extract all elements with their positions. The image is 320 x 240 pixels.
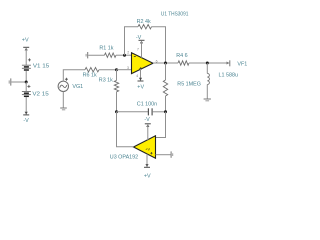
node +V (U1 bottom supply) xyxy=(137,69,144,91)
wire R4 to node D xyxy=(189,62,229,64)
wire node F down to U3 inverting input xyxy=(156,112,166,138)
svg-text:R1 1k: R1 1k xyxy=(99,46,113,52)
battery V1 xyxy=(22,58,49,70)
resistor R4 6 xyxy=(176,53,189,65)
generator VG1 xyxy=(58,78,83,92)
wire U1 pin7 supply stem xyxy=(141,41,143,58)
resistor R6 1k xyxy=(83,68,99,79)
node D (VF1/L1 node) xyxy=(206,62,209,65)
capacitor C1 100n xyxy=(137,102,157,116)
svg-text:R2 4k: R2 4k xyxy=(137,19,151,25)
voltage pin VF1 xyxy=(227,60,248,67)
resistor R2 4k xyxy=(137,19,152,29)
ground (below L1) xyxy=(204,99,211,101)
svg-text:R5 1MEG: R5 1MEG xyxy=(177,81,201,87)
wire V1 to junction xyxy=(25,71,27,82)
node C (output/feedback node) xyxy=(164,62,167,65)
op-amp U3 OPA192 xyxy=(110,136,156,161)
junction battery node xyxy=(25,81,28,84)
wire R5 to node F xyxy=(165,96,167,138)
wire node E to C1 xyxy=(117,111,149,113)
wire R3 to node E xyxy=(116,92,118,147)
wire node B to U1 pin 3 xyxy=(117,69,132,71)
svg-text:+V: +V xyxy=(144,173,151,179)
wire VG1 bottom to ground xyxy=(62,92,64,108)
wire node C down to R5 xyxy=(165,63,167,80)
resistor R3 1k xyxy=(99,78,119,92)
node F (C1 right node) xyxy=(164,110,167,113)
svg-text:R3 1k: R3 1k xyxy=(99,78,113,84)
node +V (left supply label) xyxy=(22,38,29,51)
ground (right of U3 input) xyxy=(171,151,173,157)
wire U3 top supply stem xyxy=(147,125,149,141)
svg-text:R4 6: R4 6 xyxy=(176,53,187,59)
node -V (left supply label) xyxy=(23,112,29,124)
svg-text:C1 100n: C1 100n xyxy=(137,102,157,108)
svg-text:VF1: VF1 xyxy=(237,62,247,68)
wire U1 output to node C xyxy=(153,62,178,64)
svg-text:+V: +V xyxy=(137,85,144,91)
svg-text:-V: -V xyxy=(23,118,29,124)
resistor R5 1MEG xyxy=(163,80,201,96)
wire +V to V1 xyxy=(25,48,27,65)
svg-text:R6 1k: R6 1k xyxy=(83,72,97,78)
wire C1 to node F xyxy=(152,111,165,113)
node A (inverting input node U1) xyxy=(123,54,126,57)
svg-text:-V: -V xyxy=(144,117,150,123)
op-amp U1 THS3091 xyxy=(132,11,189,73)
node -V (U3 top supply) xyxy=(144,117,150,127)
svg-text:V2 15: V2 15 xyxy=(32,92,48,98)
wire U3 noninverting input to ground xyxy=(156,154,171,156)
svg-text:V1 15: V1 15 xyxy=(33,64,49,70)
resistor R1 1k xyxy=(99,46,116,58)
wire node A up to R2 row xyxy=(125,27,139,56)
wire R6 to node B xyxy=(99,69,117,71)
ground (below VG1) xyxy=(60,108,67,110)
ground (left of R1) xyxy=(86,52,88,58)
ground (left of batteries) xyxy=(9,78,11,85)
wire node B down to R3 xyxy=(116,70,118,81)
wire VG1 top to R6 rail xyxy=(63,70,85,81)
inductor L1 588u xyxy=(207,63,238,99)
node E (C1 left node) xyxy=(115,110,118,113)
node B (noninverting input node U1) xyxy=(115,68,118,71)
battery V2 xyxy=(22,85,49,98)
wire junction to V2 xyxy=(25,82,27,91)
wire R2 to output node xyxy=(152,27,166,63)
wire U3 output to node E xyxy=(117,112,134,147)
node +V (U3 bottom supply) xyxy=(144,154,151,180)
svg-text:+V: +V xyxy=(22,38,29,44)
wire R1 to node A xyxy=(116,54,132,56)
svg-text:VG1: VG1 xyxy=(72,84,83,90)
wire ground to junction xyxy=(11,81,26,83)
svg-text:U1 THS3091: U1 THS3091 xyxy=(161,11,189,17)
svg-text:4: 4 xyxy=(136,74,138,78)
wire V2 to -V xyxy=(25,97,27,115)
node -V (U1 top supply) xyxy=(136,35,145,43)
svg-text:3: 3 xyxy=(127,66,129,70)
svg-text:U3 OPA192: U3 OPA192 xyxy=(110,154,138,160)
svg-text:L1 588u: L1 588u xyxy=(219,72,239,78)
svg-text:+V: +V xyxy=(145,148,150,152)
svg-text:2: 2 xyxy=(127,51,129,55)
wire ground to R1 xyxy=(88,54,104,56)
svg-text:7: 7 xyxy=(137,48,139,52)
